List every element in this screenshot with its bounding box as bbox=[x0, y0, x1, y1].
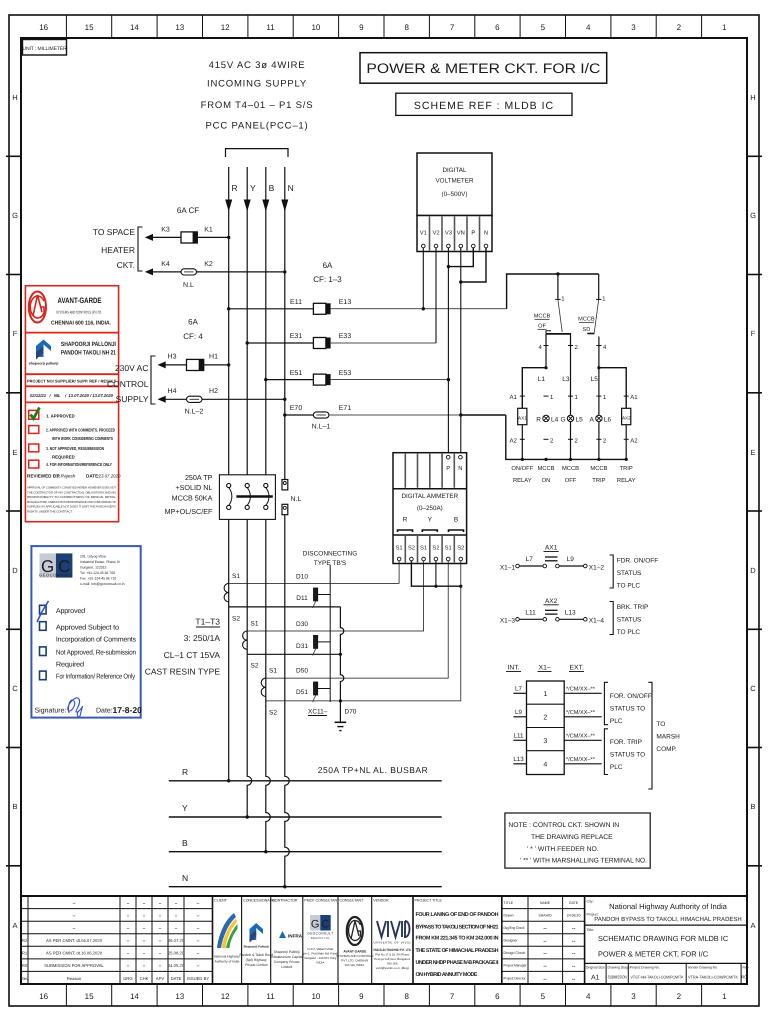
svg-text:D: D bbox=[750, 566, 756, 575]
side row strips bbox=[6, 156, 762, 866]
svg-text:NAME: NAME bbox=[540, 901, 551, 905]
heater feeder bracket bbox=[138, 227, 143, 271]
svg-text:MCCB 50KA: MCCB 50KA bbox=[172, 493, 213, 502]
svg-text:RESPONSIBILITY TO CORRECTNESS: RESPONSIBILITY TO CORRECTNESS OF DESIGN,… bbox=[27, 495, 116, 499]
svg-text:L9: L9 bbox=[515, 709, 522, 716]
busbar B bbox=[169, 838, 442, 853]
D11 disconnect terminal bbox=[313, 588, 331, 608]
wire R phase vertical bbox=[228, 167, 230, 781]
svg-text:B: B bbox=[269, 183, 275, 193]
XC11 label bbox=[308, 709, 328, 716]
concessionaire cell SP logo bbox=[239, 899, 276, 968]
svg-text:' * ' WITH FEEDER NO.: ' * ' WITH FEEDER NO. bbox=[527, 846, 599, 853]
wire V1 drop bbox=[422, 248, 424, 309]
svg-text:B: B bbox=[182, 838, 188, 848]
svg-text:OFF: OFF bbox=[565, 477, 577, 484]
fuse K4-K2 neutral link row bbox=[145, 261, 287, 289]
svg-text:TO SPACE: TO SPACE bbox=[93, 227, 136, 237]
digital ammeter A1 bbox=[393, 453, 467, 564]
svg-text:1: 1 bbox=[722, 23, 727, 32]
svg-text:G: G bbox=[560, 416, 565, 423]
svg-text:3. NOT APPROVED, RESUBMISSION: 3. NOT APPROVED, RESUBMISSION bbox=[46, 446, 104, 451]
svg-text:L7: L7 bbox=[526, 556, 534, 563]
terminal stubs L7 L9 L11 L13 bbox=[513, 693, 526, 764]
control supply bracket bbox=[151, 356, 156, 404]
svg-text:T1–T3: T1–T3 bbox=[195, 617, 220, 627]
svg-text:600 116, INDIA.: 600 116, INDIA. bbox=[345, 963, 366, 967]
junction nodes bottom rail bbox=[521, 458, 524, 461]
svg-text:L13: L13 bbox=[565, 609, 576, 616]
busbar Y bbox=[169, 803, 442, 819]
svg-text:*/CM/XX–**: */CM/XX–** bbox=[566, 709, 596, 716]
wire Y phase vertical bbox=[247, 167, 252, 817]
svg-text:Fax: +91-124-45 66 710: Fax: +91-124-45 66 710 bbox=[80, 577, 116, 581]
svg-text:10: 10 bbox=[311, 23, 320, 32]
AX2 contact row X1-3/X1-4 bbox=[500, 598, 605, 625]
svg-text:C: C bbox=[322, 919, 330, 931]
busbar R bbox=[169, 767, 442, 783]
svg-text:UNIVERSE OF VIVID: UNIVERSE OF VIVID bbox=[374, 941, 412, 945]
MCCB rating text bbox=[165, 473, 213, 516]
svg-text:R: R bbox=[536, 416, 541, 423]
svg-text:DIGITAL: DIGITAL bbox=[442, 167, 467, 174]
svg-text:L13: L13 bbox=[513, 756, 524, 763]
wire ammeter S1R to D10 bbox=[229, 561, 399, 584]
wire ammeter S1B to D50 bbox=[266, 561, 448, 678]
svg-text:SCHEME REF : MLDB IC: SCHEME REF : MLDB IC bbox=[414, 100, 554, 112]
wire ammeter S2B common drop to D51 bbox=[266, 561, 461, 701]
svg-text:E: E bbox=[750, 448, 755, 457]
relay coil AX1 bbox=[518, 408, 527, 459]
svg-text:PROJECT TITLE: PROJECT TITLE bbox=[415, 899, 443, 903]
svg-text:N: N bbox=[288, 183, 294, 193]
svg-text:X1–4: X1–4 bbox=[589, 618, 605, 625]
svg-text:16: 16 bbox=[39, 23, 48, 32]
svg-text:E51: E51 bbox=[290, 370, 303, 377]
checkbox 2 bbox=[29, 426, 39, 434]
svg-text:N.L: N.L bbox=[183, 282, 194, 289]
label 6A CF:4 bbox=[183, 318, 203, 342]
MCCB OF auxiliary contact bbox=[534, 274, 579, 459]
wire ammeter S2Y drop bbox=[435, 561, 437, 586]
XC11 bus line bbox=[329, 565, 331, 702]
svg-text:N.L–1: N.L–1 bbox=[312, 424, 331, 431]
svg-text:Incorporation of Comments: Incorporation of Comments bbox=[56, 636, 137, 644]
svg-text:--: -- bbox=[572, 926, 576, 932]
svg-text:E33: E33 bbox=[339, 333, 352, 340]
svg-text:G: G bbox=[311, 919, 320, 931]
svg-text:2: 2 bbox=[677, 23, 682, 32]
svg-text:6: 6 bbox=[495, 23, 500, 32]
svg-text:X1–2: X1–2 bbox=[589, 564, 605, 571]
svg-text:PLC: PLC bbox=[610, 718, 623, 725]
lamp L4 red bbox=[536, 415, 558, 423]
svg-text:H2: H2 bbox=[209, 388, 218, 395]
svg-text:24.05.20: 24.05.20 bbox=[168, 963, 185, 968]
svg-text:For Information/ Reference Onl: For Information/ Reference Only bbox=[56, 673, 136, 681]
pmcf consultant cell GC logo bbox=[304, 899, 341, 965]
svg-text:E71: E71 bbox=[339, 405, 352, 412]
svg-text:TRIP: TRIP bbox=[620, 466, 633, 472]
svg-text:FROM KM 221.345 TO KM 242.000: FROM KM 221.345 TO KM 242.000 IN bbox=[416, 936, 499, 942]
svg-text:A1: A1 bbox=[509, 394, 517, 401]
svg-text:TITLE: TITLE bbox=[504, 901, 514, 905]
svg-text:E53: E53 bbox=[339, 370, 352, 377]
bracket BRK status bbox=[610, 602, 614, 635]
svg-text:VTGT-NH-TAKOLI-COM/PCM/TK: VTGT-NH-TAKOLI-COM/PCM/TK bbox=[631, 975, 684, 980]
svg-text:R: R bbox=[232, 183, 238, 193]
svg-text:FOR. ON/OFF: FOR. ON/OFF bbox=[610, 693, 652, 700]
incoming supply note bbox=[201, 60, 314, 132]
CT T2 on Y phase bbox=[243, 631, 341, 654]
CT T3 on B phase bbox=[261, 678, 266, 696]
svg-text:FOUR LANING OF END OF PANDOH: FOUR LANING OF END OF PANDOH bbox=[416, 912, 499, 918]
svg-text:PROJECT NO/ SUPPLIER/ SUPP. RE: PROJECT NO/ SUPPLIER/ SUPP. REF / RESULT bbox=[27, 379, 117, 384]
svg-text:--: -- bbox=[543, 939, 547, 945]
disconnecting TB label bbox=[303, 551, 358, 568]
lamp L6 amber bbox=[590, 415, 612, 423]
title block main border bbox=[21, 896, 747, 984]
svg-text:25.06.20: 25.06.20 bbox=[168, 951, 185, 956]
svg-text:2. APPROVED WITH COMMENTS, PRO: 2. APPROVED WITH COMMENTS, PROCEED bbox=[46, 428, 115, 433]
fuse E51-E53 row bbox=[264, 370, 448, 385]
svg-text:SUBMISSION: SUBMISSION bbox=[608, 975, 627, 980]
svg-text:9: 9 bbox=[359, 992, 364, 1001]
svg-text:10: 10 bbox=[311, 992, 320, 1001]
fuse E11-E13 row bbox=[227, 299, 507, 314]
svg-text:3: 3 bbox=[631, 23, 636, 32]
svg-text:S2: S2 bbox=[457, 545, 464, 552]
svg-text:Drawing Stage: Drawing Stage bbox=[608, 966, 630, 970]
svg-text:5: 5 bbox=[541, 23, 546, 32]
svg-text:14: 14 bbox=[130, 23, 139, 32]
S2 common vertical with hops bbox=[340, 607, 343, 722]
svg-text:13: 13 bbox=[175, 992, 184, 1001]
svg-text:TRIP: TRIP bbox=[592, 478, 605, 484]
GC logo bbox=[40, 553, 56, 577]
right info section bbox=[585, 900, 749, 985]
svg-text:B: B bbox=[12, 802, 17, 811]
svg-text:B: B bbox=[454, 517, 458, 524]
wire VN drop to ammeter N bbox=[460, 248, 462, 456]
svg-text:K2: K2 bbox=[204, 261, 213, 268]
relay branch rails bbox=[522, 368, 626, 409]
svg-text:SYSTEMS AND CONTROLS (P) LTD.: SYSTEMS AND CONTROLS (P) LTD. bbox=[56, 310, 102, 315]
svg-text:N: N bbox=[484, 231, 488, 237]
svg-text:MCCB: MCCB bbox=[534, 314, 551, 320]
svg-text:GEOCONSULT: GEOCONSULT bbox=[307, 932, 333, 936]
svg-text:FROM T4–01 – P1 S/S: FROM T4–01 – P1 S/S bbox=[201, 100, 314, 111]
svg-text:H: H bbox=[12, 93, 17, 102]
label TO SPACE HEATER CKT. bbox=[93, 227, 136, 270]
terminal block table headers bbox=[507, 665, 584, 672]
relay circuit top rail bbox=[507, 274, 599, 309]
svg-text:S1: S1 bbox=[445, 545, 452, 552]
svg-text:VND ELECTRODYNE PVT. LTD.: VND ELECTRODYNE PVT. LTD. bbox=[373, 948, 411, 952]
svg-text:E11: E11 bbox=[290, 299, 302, 306]
svg-text:AVANT-GARDE: AVANT-GARDE bbox=[343, 950, 366, 954]
svg-text:Project:: Project: bbox=[587, 913, 599, 917]
svg-text:TO PLC: TO PLC bbox=[617, 583, 641, 590]
svg-text:02/12/21 / NIL / 13.07: 02/12/21 / NIL / 13.07.2020 / 13.07.2020 bbox=[30, 393, 114, 398]
svg-text:K4: K4 bbox=[161, 261, 170, 268]
scheme ref box bbox=[396, 93, 572, 115]
svg-text:D50: D50 bbox=[296, 668, 308, 675]
svg-text:--: -- bbox=[543, 926, 547, 932]
junction node V1/E13 bbox=[422, 307, 425, 310]
svg-text:UNDER NHDP PHASE IV-B PACKAGE: UNDER NHDP PHASE IV-B PACKAGE II bbox=[416, 960, 500, 966]
bracket rows 3-4 status bbox=[604, 729, 608, 775]
svg-text:ON HYBRID ANNUITY MODE: ON HYBRID ANNUITY MODE bbox=[416, 972, 478, 978]
svg-text:S1: S1 bbox=[420, 545, 427, 552]
svg-text:5: 5 bbox=[541, 992, 546, 1001]
svg-text:e-mail: info@geoconsult.co.in: e-mail: info@geoconsult.co.in bbox=[80, 582, 125, 586]
svg-text:STATUS: STATUS bbox=[617, 570, 642, 577]
svg-text:Authority of India: Authority of India bbox=[215, 960, 240, 964]
svg-text:CF: 1–3: CF: 1–3 bbox=[313, 275, 342, 284]
svg-text:S2: S2 bbox=[269, 710, 277, 717]
svg-text:PMCF CONSULTANT: PMCF CONSULTANT bbox=[304, 899, 340, 903]
contact ticks row 2 bbox=[520, 438, 629, 440]
svg-text:A1: A1 bbox=[630, 394, 638, 401]
svg-text:(0–500V): (0–500V) bbox=[442, 191, 468, 198]
svg-text:AX1: AX1 bbox=[518, 416, 527, 421]
svg-text:ph-1, Phd Main Rd, Pand: ph-1, Phd Main Rd, Pand bbox=[304, 952, 338, 956]
svg-text:560 058: 560 058 bbox=[387, 962, 398, 966]
svg-text:S2: S2 bbox=[251, 663, 259, 670]
svg-text:C: C bbox=[750, 684, 756, 693]
svg-text:S.Rajesh: S.Rajesh bbox=[56, 474, 76, 480]
checkbox 1 approved bbox=[29, 410, 39, 419]
svg-text:6: 6 bbox=[495, 992, 500, 1001]
svg-text:Approved: Approved bbox=[56, 607, 85, 615]
svg-text:D70: D70 bbox=[345, 709, 357, 716]
svg-text:SUBMISSION FOR APPROVAL: SUBMISSION FOR APPROVAL bbox=[44, 963, 104, 968]
svg-text:CONSULTANT: CONSULTANT bbox=[340, 899, 365, 903]
svg-text:shapoorji pallonji: shapoorji pallonji bbox=[29, 362, 59, 366]
svg-text:X1–: X1– bbox=[539, 665, 551, 672]
svg-text:VENDOR: VENDOR bbox=[373, 899, 389, 903]
svg-text:D11: D11 bbox=[296, 595, 308, 602]
svg-text:6A: 6A bbox=[323, 261, 333, 270]
svg-text:--: -- bbox=[572, 951, 576, 957]
bracket to marshalling bbox=[648, 682, 652, 789]
svg-text:POWER & METER CKT. FOR I/C: POWER & METER CKT. FOR I/C bbox=[366, 61, 600, 76]
svg-text:MCCB: MCCB bbox=[578, 317, 595, 323]
svg-text:8: 8 bbox=[404, 992, 409, 1001]
svg-text:CHENNAI 600 116, INDIA.: CHENNAI 600 116, INDIA. bbox=[51, 321, 111, 327]
svg-text:26.07.20: 26.07.20 bbox=[168, 938, 185, 943]
svg-text:HEATER: HEATER bbox=[101, 245, 135, 255]
svg-text:' ** ' WITH MARSHALLING TERMIN: ' ** ' WITH MARSHALLING TERMINAL NO. bbox=[520, 858, 647, 865]
svg-text:STATUS: STATUS bbox=[617, 617, 642, 624]
svg-text:VTRA-TAKOLI-COM/PCM/TK: VTRA-TAKOLI-COM/PCM/TK bbox=[688, 975, 738, 980]
svg-text:Pandoh & Takoli Road: Pandoh & Takoli Road bbox=[239, 953, 273, 957]
svg-text:7: 7 bbox=[450, 992, 455, 1001]
svg-text:H4: H4 bbox=[168, 388, 177, 395]
wire N neutral vertical bbox=[285, 167, 290, 887]
svg-text:14: 14 bbox=[130, 992, 139, 1001]
svg-text:*/CM/XX–**: */CM/XX–** bbox=[566, 733, 596, 740]
svg-text:RELAY: RELAY bbox=[617, 478, 636, 484]
ground bbox=[335, 722, 347, 730]
svg-text:13: 13 bbox=[175, 23, 184, 32]
svg-text:15: 15 bbox=[85, 23, 94, 32]
svg-text:1. APPROVED: 1. APPROVED bbox=[46, 414, 75, 419]
svg-text:D10: D10 bbox=[296, 574, 308, 581]
svg-text:K3: K3 bbox=[161, 227, 170, 234]
bracket rows 1-2 status bbox=[604, 682, 608, 724]
svg-text:TO: TO bbox=[656, 721, 665, 728]
svg-text:K1: K1 bbox=[204, 227, 213, 234]
svg-text:L4: L4 bbox=[551, 416, 559, 423]
svg-text:S1: S1 bbox=[251, 621, 259, 628]
svg-text:F: F bbox=[13, 329, 18, 338]
wire P link bbox=[448, 248, 473, 267]
svg-text:X1–1: X1–1 bbox=[500, 564, 516, 571]
svg-text:250A TP: 250A TP bbox=[185, 473, 213, 482]
svg-text:1: 1 bbox=[722, 992, 727, 1001]
svg-text:G: G bbox=[750, 211, 756, 220]
svg-text:Company Private: Company Private bbox=[274, 960, 300, 964]
wire B phase vertical bbox=[266, 167, 271, 852]
vendor cell VIVID logo bbox=[373, 899, 411, 971]
relay bottom rail bbox=[506, 415, 626, 459]
svg-text:S1: S1 bbox=[269, 668, 277, 675]
svg-text:ISSUED BY: ISSUED BY bbox=[187, 976, 210, 981]
checkbox approved bbox=[40, 605, 47, 614]
fine print paragraph bbox=[27, 486, 116, 514]
svg-text:NOTE : CONTROL CKT. SHOWN IN: NOTE : CONTROL CKT. SHOWN IN bbox=[508, 822, 619, 829]
svg-text:AS PER CMNT. dt.04.07.2020: AS PER CMNT. dt.04.07.2020 bbox=[46, 938, 103, 943]
svg-text:DRG: DRG bbox=[123, 976, 132, 981]
svg-text:Plot No.17 & 18, 5th Phase: Plot No.17 & 18, 5th Phase bbox=[375, 953, 409, 957]
svg-text:INT.: INT. bbox=[507, 665, 519, 672]
svg-text:INCOMING SUPPLY: INCOMING SUPPLY bbox=[207, 79, 307, 90]
svg-text:R0: R0 bbox=[741, 975, 747, 980]
svg-text:H: H bbox=[750, 93, 755, 102]
svg-text:L5: L5 bbox=[591, 376, 599, 383]
svg-text:Shapoorji Pallonji: Shapoorji Pallonji bbox=[274, 950, 300, 954]
svg-text:ON: ON bbox=[542, 477, 551, 484]
D terminal labels bbox=[296, 574, 308, 697]
svg-text:FOR. TRIP: FOR. TRIP bbox=[610, 739, 642, 746]
svg-text:EXT.: EXT. bbox=[570, 665, 584, 672]
consultant cell AG logo bbox=[336, 899, 373, 968]
svg-text:DISCONNECTING: DISCONNECTING bbox=[303, 551, 358, 558]
revision table bbox=[21, 896, 213, 984]
svg-text:Vendor Drawing No.: Vendor Drawing No. bbox=[688, 966, 718, 970]
fuse H4-H2 neutral link row bbox=[158, 388, 287, 416]
wire V3 drop to ammeter P bbox=[447, 248, 449, 456]
checkbox 4 bbox=[29, 460, 39, 468]
svg-text:VN: VN bbox=[457, 231, 465, 237]
svg-text:F: F bbox=[751, 329, 756, 338]
svg-text:P: P bbox=[446, 466, 450, 472]
svg-text:REQUIRED: REQUIRED bbox=[52, 454, 75, 459]
svg-text:L3: L3 bbox=[562, 376, 570, 383]
note box bbox=[505, 813, 650, 868]
svg-text:3: 3 bbox=[631, 992, 636, 1001]
svg-text:Required: Required bbox=[56, 661, 84, 669]
svg-text:Designer: Designer bbox=[504, 939, 519, 943]
svg-text:A2: A2 bbox=[630, 438, 638, 445]
svg-text:A2: A2 bbox=[509, 438, 517, 445]
voltmeter terminal strip V1 V2 V3 VN P N bbox=[417, 216, 492, 252]
fuse E70-E71 neutral link row bbox=[283, 405, 506, 430]
svg-text:R: R bbox=[182, 767, 188, 777]
svg-text:--: -- bbox=[543, 976, 547, 982]
contractor cell bbox=[270, 899, 304, 970]
svg-text:SUPPLIES AS APPLICABLE NOT DOE: SUPPLIES AS APPLICABLE NOT DOES IT LIMIT… bbox=[27, 505, 116, 509]
svg-text:APV: APV bbox=[156, 976, 165, 981]
svg-text:8: 8 bbox=[404, 23, 409, 32]
N.L solid link on neutral bbox=[282, 480, 302, 515]
MCCB SD auxiliary contact bbox=[578, 274, 607, 459]
svg-text:DATE: DATE bbox=[171, 976, 182, 981]
svg-text:2: 2 bbox=[677, 992, 682, 1001]
svg-text:E: E bbox=[12, 448, 17, 457]
svg-text:15: 15 bbox=[85, 992, 94, 1001]
checkbox for information bbox=[40, 671, 47, 680]
svg-text:CHK: CHK bbox=[140, 976, 149, 981]
svg-text:--: -- bbox=[543, 951, 547, 957]
svg-text:INDIA PVT. LTD.: INDIA PVT. LTD. bbox=[311, 937, 330, 940]
svg-text:Project Manager: Project Manager bbox=[504, 964, 528, 968]
svg-text:MP+OL/SC/EF: MP+OL/SC/EF bbox=[165, 507, 213, 516]
AG monogram logo bbox=[29, 292, 46, 323]
svg-text:POWER & METER CKT, FOR I/C: POWER & METER CKT, FOR I/C bbox=[598, 950, 709, 959]
svg-text:A: A bbox=[12, 921, 17, 930]
svg-text:SYSTEMS AND CONTROLS: SYSTEMS AND CONTROLS bbox=[336, 954, 373, 958]
junction nodes D31/D51 bbox=[339, 653, 342, 656]
svg-text:Industrial Estate, Phase IV: Industrial Estate, Phase IV bbox=[80, 560, 121, 564]
svg-text:V1: V1 bbox=[420, 231, 427, 237]
svg-text:--: -- bbox=[572, 976, 576, 982]
svg-text:GEOCONSULT: GEOCONSULT bbox=[39, 573, 73, 578]
svg-text:A: A bbox=[750, 921, 755, 930]
svg-text:201, Udyog Vihar: 201, Udyog Vihar bbox=[80, 555, 107, 559]
svg-text:Original Size: Original Size bbox=[586, 966, 605, 970]
svg-text:TO PLC: TO PLC bbox=[617, 629, 641, 636]
svg-text:D31: D31 bbox=[296, 643, 308, 650]
svg-text:L1: L1 bbox=[538, 376, 546, 383]
svg-text:4: 4 bbox=[586, 23, 591, 32]
svg-text:1: 1 bbox=[543, 691, 547, 698]
digital voltmeter U1 bbox=[417, 153, 492, 216]
svg-text:C: C bbox=[12, 684, 18, 693]
svg-text:CKT.: CKT. bbox=[117, 260, 135, 270]
svg-text:Dsg/Eng Check: Dsg/Eng Check bbox=[504, 926, 525, 930]
svg-text:R1: R1 bbox=[22, 951, 28, 956]
svg-text:R: R bbox=[403, 517, 408, 524]
phase labels R Y B N bbox=[232, 183, 294, 193]
svg-text:CLIENT: CLIENT bbox=[214, 899, 228, 903]
labels L1 L3 L5 bbox=[538, 376, 599, 383]
svg-text:AVANT-GARDE: AVANT-GARDE bbox=[58, 296, 102, 305]
svg-text:MCCB: MCCB bbox=[590, 465, 607, 472]
svg-text:N: N bbox=[458, 466, 462, 472]
svg-text:CF: 4: CF: 4 bbox=[183, 332, 203, 341]
svg-text:Project Director: Project Director bbox=[504, 976, 527, 980]
svg-text:SHAHID: SHAHID bbox=[538, 913, 552, 917]
CT T1 on R phase bbox=[224, 583, 340, 607]
relay branch labels bbox=[511, 465, 635, 484]
external stubs bbox=[564, 693, 602, 764]
svg-text:L7: L7 bbox=[515, 686, 522, 693]
svg-text:SD: SD bbox=[583, 327, 591, 333]
blue approval stamp GEOCONSULT bbox=[31, 546, 142, 718]
